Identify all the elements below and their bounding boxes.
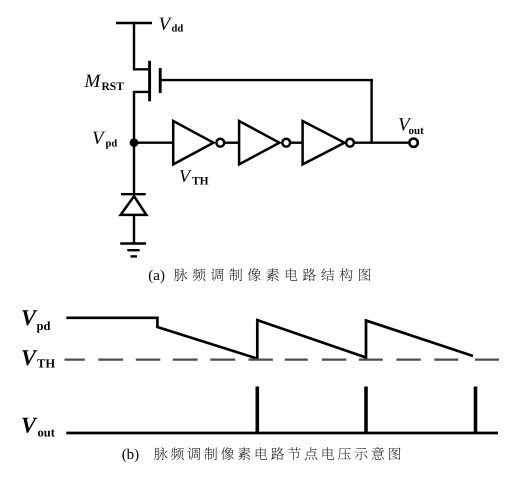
power rail V_dd	[116, 22, 152, 25]
node V_pd	[130, 138, 139, 147]
svg-text:M: M	[84, 71, 102, 92]
V_pd trace	[66, 318, 473, 359]
V_out baseline	[66, 432, 498, 435]
svg-text:TH: TH	[192, 176, 209, 188]
output wire	[354, 141, 408, 143]
V_out pulse 1	[255, 387, 259, 434]
gate wire	[160, 79, 373, 81]
wire photodiode to ground	[133, 215, 135, 244]
V_out pulse 3	[474, 387, 478, 434]
svg-text:V: V	[21, 345, 38, 370]
terminal V_out	[409, 139, 417, 147]
feedback wire	[370, 79, 372, 143]
inverter U2	[239, 121, 290, 164]
svg-text:out: out	[409, 125, 425, 137]
threshold line V_TH	[65, 358, 500, 360]
wire source to photodiode	[133, 92, 135, 195]
transistor M_RST	[133, 61, 160, 102]
svg-text:V: V	[21, 305, 38, 330]
V_out pulse 2	[364, 387, 368, 434]
svg-text:out: out	[38, 426, 56, 440]
inverter U3	[303, 121, 354, 164]
photodiode D1	[121, 194, 147, 215]
svg-text:(a): (a)	[148, 268, 165, 284]
svg-text:pd: pd	[37, 319, 51, 333]
svg-text:(b): (b)	[122, 447, 140, 463]
wire node to inverter U1	[134, 141, 173, 143]
svg-text:dd: dd	[172, 24, 184, 35]
inverter U1	[173, 121, 224, 164]
svg-text:RST: RST	[102, 81, 125, 93]
wire U1 to U2	[224, 141, 239, 143]
caption (b)	[122, 447, 401, 463]
caption (a)	[148, 268, 370, 284]
wire Vdd to drain	[133, 22, 135, 70]
svg-text:pd: pd	[106, 139, 118, 150]
svg-text:TH: TH	[37, 357, 55, 371]
wire U2 to U3	[290, 141, 303, 143]
ground	[120, 244, 146, 257]
svg-text:V: V	[21, 413, 38, 438]
